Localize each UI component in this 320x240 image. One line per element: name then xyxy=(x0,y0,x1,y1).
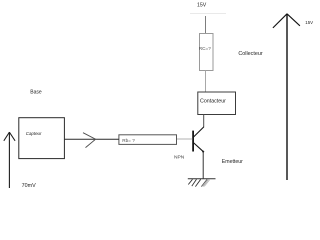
svg-text:Capteur: Capteur xyxy=(26,131,42,136)
transistor Q1 base bar xyxy=(192,131,194,152)
contactor K1 xyxy=(198,92,236,115)
wire faint top rail xyxy=(190,13,226,15)
wire capteur to resistor RB xyxy=(64,138,119,140)
arrowhead on base wire xyxy=(83,133,96,148)
input arrow (70mV source) xyxy=(4,132,15,188)
resistor RB xyxy=(119,135,177,145)
svg-text:Rb= ?: Rb= ? xyxy=(122,138,135,143)
svg-text:NPN: NPN xyxy=(174,155,185,161)
wire contactor to collector xyxy=(203,115,205,128)
junction emitter node dot xyxy=(202,151,204,153)
svg-text:Collecteur: Collecteur xyxy=(238,51,262,57)
wire resistor RC to contactor xyxy=(205,71,207,93)
svg-text:Contacteur: Contacteur xyxy=(200,98,226,104)
svg-text:Base: Base xyxy=(30,90,42,96)
svg-text:70mV: 70mV xyxy=(22,183,36,189)
wire 15V to resistor RC xyxy=(205,16,207,34)
wire emitter to ground xyxy=(202,152,204,179)
svg-text:15V: 15V xyxy=(305,20,313,25)
svg-text:15V: 15V xyxy=(197,3,207,9)
svg-text:Emetteur: Emetteur xyxy=(222,159,243,165)
transistor Q1 collector lead xyxy=(193,127,203,137)
sensor block Capteur xyxy=(19,118,65,159)
supply arrow 15V (right rail) xyxy=(273,14,300,180)
svg-text:RC=?: RC=? xyxy=(199,46,212,51)
ground xyxy=(188,179,216,187)
wire base: resistor RB to transistor base xyxy=(177,138,193,140)
resistor RC xyxy=(200,34,214,71)
transistor Q1 emitter lead xyxy=(193,143,203,152)
